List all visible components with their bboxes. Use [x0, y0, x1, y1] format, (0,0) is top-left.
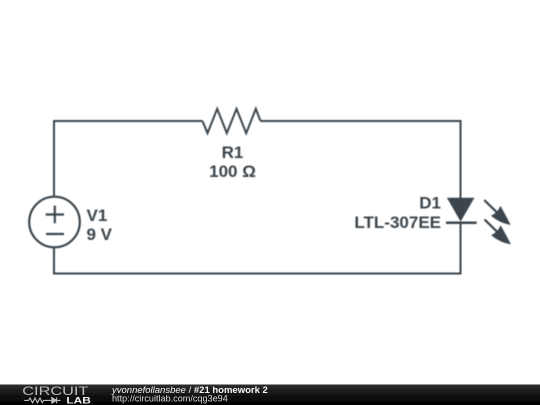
wire: from V1 bottom terminal along bottom rail and up right side to LED cathode [54, 223, 461, 274]
svg-text:V1: V1 [87, 206, 108, 225]
V1 plus sign [46, 206, 64, 224]
LED light emission arrow (upper) [485, 201, 511, 225]
svg-text:R1: R1 [222, 143, 244, 162]
svg-text:9 V: 9 V [87, 225, 113, 244]
svg-text:LTL-307EE: LTL-307EE [354, 213, 441, 232]
voltage source V1 (circle body) [29, 197, 80, 248]
V1 minus sign [46, 233, 64, 235]
svg-text:100 Ω: 100 Ω [209, 162, 256, 181]
svg-text:D1: D1 [419, 194, 441, 213]
svg-text:http://circuitlab.com/cqg3e94: http://circuitlab.com/cqg3e94 [112, 394, 228, 404]
CircuitLab logo diode symbol [48, 397, 60, 403]
LED light emission arrow (lower) [485, 220, 511, 244]
LED D1 cathode bar [446, 222, 477, 225]
resistor R1 (zigzag body) [203, 109, 261, 133]
wire: from R1 right lead along top rail and down right side to LED anode [261, 121, 461, 199]
LED D1 anode triangle [447, 198, 475, 222]
wire: from R1 left lead along top rail and down left side to V1 top terminal [54, 121, 203, 197]
svg-text:LAB: LAB [66, 396, 90, 405]
footer bar background [0, 385, 540, 405]
CircuitLab logo resistor squiggle [24, 398, 48, 403]
